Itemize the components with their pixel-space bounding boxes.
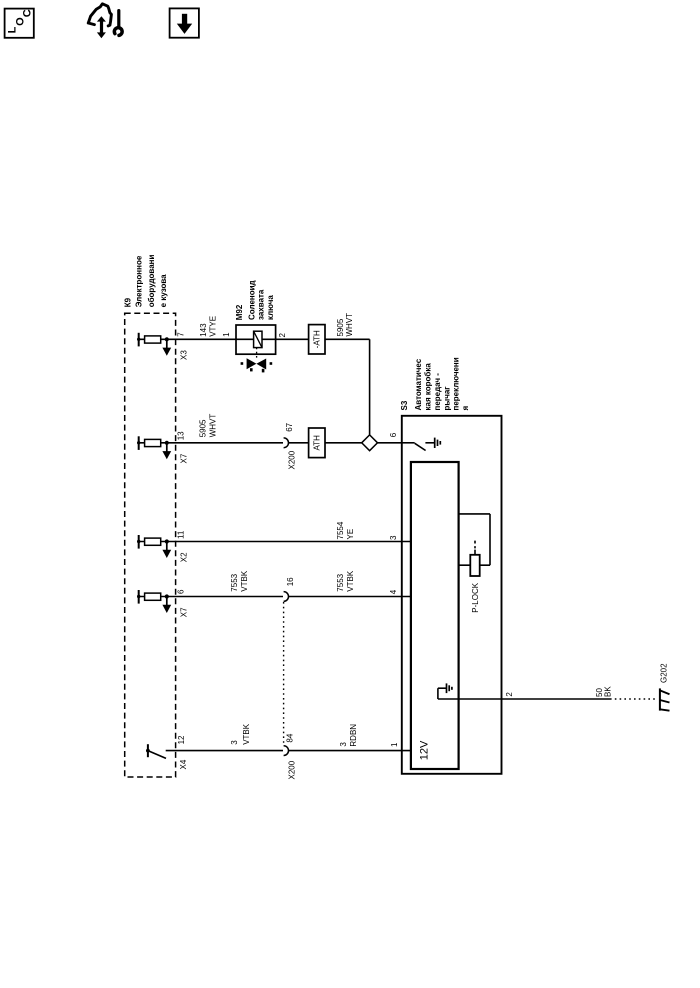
svg-text:P-LOCK: P-LOCK: [471, 582, 480, 612]
svg-text:S3: S3: [400, 400, 409, 410]
svg-text:13: 13: [176, 431, 185, 440]
svg-text:7: 7: [176, 332, 185, 337]
svg-text:VTYE: VTYE: [208, 316, 217, 337]
svg-text:VTBK: VTBK: [240, 570, 249, 592]
svg-text:VTBK: VTBK: [346, 570, 355, 592]
svg-text:кая коробка: кая коробка: [424, 363, 433, 411]
svg-text:X200: X200: [287, 450, 296, 469]
svg-text:-ATH: -ATH: [313, 330, 322, 348]
svg-text:я: я: [461, 406, 470, 411]
svg-text:3: 3: [230, 740, 239, 745]
svg-text:VTBK: VTBK: [242, 723, 251, 745]
svg-text:е кузова: е кузова: [159, 274, 168, 307]
svg-text:YE: YE: [346, 529, 355, 540]
svg-text:143: 143: [199, 323, 208, 337]
svg-text:Электронное: Электронное: [134, 255, 143, 307]
svg-text:3: 3: [339, 742, 348, 747]
svg-text:WHVT: WHVT: [345, 313, 354, 337]
svg-text:2: 2: [278, 333, 287, 338]
svg-text:М92: М92: [235, 304, 244, 320]
svg-text:передач -: передач -: [433, 373, 442, 411]
svg-text:12V: 12V: [419, 740, 431, 760]
svg-text:X3: X3: [179, 350, 188, 360]
svg-text:1: 1: [390, 742, 399, 747]
svg-text:7553: 7553: [230, 573, 239, 591]
svg-text:16: 16: [286, 577, 295, 586]
svg-text:67: 67: [285, 422, 294, 431]
svg-text:ATH: ATH: [313, 435, 322, 451]
svg-text:1: 1: [222, 332, 231, 337]
svg-text:X7: X7: [179, 607, 188, 617]
svg-text:84: 84: [285, 733, 294, 742]
svg-text:7553: 7553: [336, 573, 345, 591]
svg-text:Соленоид: Соленоид: [248, 280, 257, 320]
svg-text:рычаг: рычаг: [442, 386, 451, 411]
svg-text:X200: X200: [287, 760, 296, 779]
svg-text:12: 12: [177, 735, 186, 744]
svg-text:X7: X7: [179, 453, 188, 463]
svg-text:оборудовани: оборудовани: [147, 254, 156, 307]
svg-text:L: L: [6, 26, 18, 33]
svg-text:ключа: ключа: [266, 295, 275, 320]
svg-text:6: 6: [389, 432, 398, 437]
svg-text:WHVT: WHVT: [209, 414, 218, 438]
svg-text:захвата: захвата: [257, 289, 266, 320]
svg-text:переключени: переключени: [452, 357, 461, 410]
svg-text:RDBN: RDBN: [349, 724, 358, 747]
svg-text:3: 3: [389, 535, 398, 540]
svg-text:11: 11: [176, 530, 185, 539]
svg-text:5905: 5905: [336, 318, 345, 336]
svg-text:X4: X4: [179, 759, 188, 769]
svg-text:BK: BK: [603, 686, 612, 697]
svg-text:C: C: [21, 9, 33, 17]
svg-text:6: 6: [176, 589, 185, 594]
svg-text:7554: 7554: [336, 521, 345, 539]
svg-text:5905: 5905: [198, 419, 207, 437]
svg-text:X2: X2: [179, 552, 188, 562]
svg-text:2: 2: [505, 692, 514, 697]
svg-text:4: 4: [389, 589, 398, 594]
svg-text:G202: G202: [659, 663, 668, 683]
svg-text:Автоматичес: Автоматичес: [414, 358, 423, 410]
svg-text:К9: К9: [123, 297, 132, 307]
